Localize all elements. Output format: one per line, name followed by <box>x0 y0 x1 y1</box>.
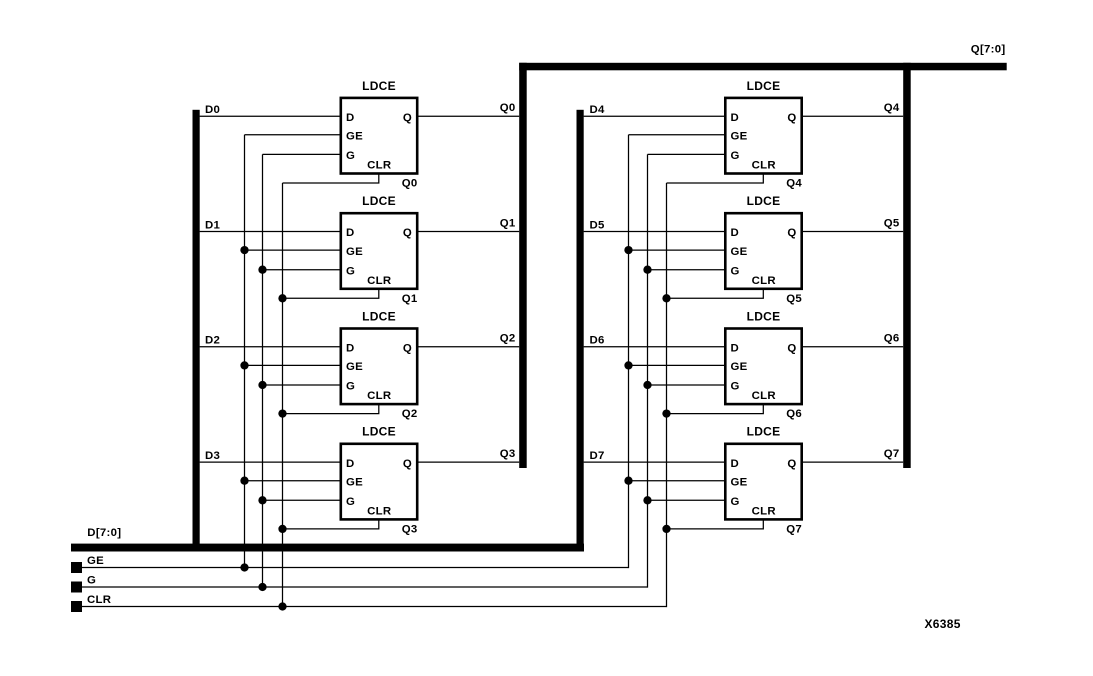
wire GE stub latch 2 <box>245 364 341 366</box>
svg-text:Q1: Q1 <box>402 293 418 305</box>
wire Q6 from pin Q to Q bus <box>802 346 903 348</box>
wire GE stub latch 3 <box>245 480 341 482</box>
svg-text:Q: Q <box>403 458 412 470</box>
wire D7 from D bus to pin D <box>584 461 725 463</box>
wire Q4 from pin Q to Q bus <box>802 115 903 117</box>
wire G horizontal net <box>82 586 648 588</box>
wire G vertical right group <box>647 154 649 587</box>
wire GE stub latch 7 <box>629 480 726 482</box>
svg-text:D7: D7 <box>590 450 605 462</box>
wire GE vertical right group <box>628 135 630 568</box>
junction GE tap latch 1 <box>240 246 248 254</box>
svg-text:G: G <box>346 265 355 277</box>
wire D0 from D bus to pin D <box>200 115 341 117</box>
junction GE-net left tap <box>240 563 248 571</box>
wire G vertical left group <box>262 154 264 587</box>
svg-text:Q: Q <box>403 227 412 239</box>
svg-text:G: G <box>346 381 355 393</box>
wire GE stub latch 0 <box>245 134 341 136</box>
junction CLR-net left tap <box>278 602 286 610</box>
svg-text:D4: D4 <box>590 104 606 116</box>
svg-text:Q3: Q3 <box>500 448 516 460</box>
bus Q[7:0] top horizontal <box>519 63 1007 71</box>
wire CLR stub latch 0 <box>283 174 379 183</box>
svg-text:G: G <box>346 496 355 508</box>
junction GE tap latch 5 <box>624 246 632 254</box>
wire GE horizontal net <box>82 567 629 569</box>
wire Q1 from pin Q to Q bus <box>418 231 520 233</box>
wire D2 from D bus to pin D <box>200 346 341 348</box>
svg-text:G: G <box>731 150 740 162</box>
bus D right vertical branch <box>577 110 584 551</box>
svg-text:LDCE: LDCE <box>362 194 396 208</box>
svg-text:LDCE: LDCE <box>747 425 781 439</box>
svg-text:G: G <box>731 265 740 277</box>
bus D[7:0] bottom horizontal <box>71 544 584 552</box>
svg-text:CLR: CLR <box>87 594 111 606</box>
terminal CLR input square <box>71 601 82 612</box>
svg-text:Q5: Q5 <box>786 293 802 305</box>
wire CLR stub latch 6 <box>667 404 764 413</box>
svg-text:D6: D6 <box>590 335 605 347</box>
svg-text:D: D <box>731 227 740 239</box>
junction GE tap latch 2 <box>240 361 248 369</box>
wire G stub latch 2 <box>263 384 341 386</box>
junction GE tap latch 3 <box>240 477 248 485</box>
svg-text:LDCE: LDCE <box>747 194 781 208</box>
svg-text:CLR: CLR <box>752 390 776 402</box>
svg-text:Q7: Q7 <box>786 523 802 535</box>
svg-text:X6385: X6385 <box>925 617 961 631</box>
svg-text:Q[7:0]: Q[7:0] <box>971 43 1006 55</box>
svg-text:Q: Q <box>787 458 796 470</box>
svg-text:GE: GE <box>731 476 748 488</box>
wire GE vertical left group <box>244 135 246 568</box>
junction G tap latch 5 <box>643 266 651 274</box>
latch 0 body (LDCE) instance Q0 <box>341 98 417 174</box>
svg-text:Q: Q <box>787 112 796 124</box>
wire GE stub latch 4 <box>629 134 726 136</box>
latch 6 body (LDCE) instance Q6 <box>725 329 801 405</box>
wire G stub latch 6 <box>648 384 726 386</box>
svg-text:G: G <box>731 496 740 508</box>
wire D5 from D bus to pin D <box>584 231 725 233</box>
svg-text:Q5: Q5 <box>884 217 900 229</box>
svg-text:Q6: Q6 <box>884 333 900 345</box>
svg-text:CLR: CLR <box>752 275 776 287</box>
svg-text:D0: D0 <box>205 104 220 116</box>
svg-text:GE: GE <box>346 361 363 373</box>
svg-text:LDCE: LDCE <box>747 309 781 323</box>
junction CLR tap latch 6 <box>662 409 670 417</box>
junction G tap latch 2 <box>258 381 266 389</box>
wire CLR stub latch 1 <box>283 289 379 298</box>
svg-text:D: D <box>346 227 355 239</box>
svg-text:GE: GE <box>731 131 748 143</box>
wire GE stub latch 5 <box>629 249 726 251</box>
svg-text:Q: Q <box>787 343 796 355</box>
svg-text:G: G <box>87 575 96 587</box>
junction G-net left tap <box>258 583 266 591</box>
wire Q0 from pin Q to Q bus <box>418 115 520 117</box>
svg-text:CLR: CLR <box>752 506 776 518</box>
svg-text:CLR: CLR <box>752 160 776 172</box>
latch 3 body (LDCE) instance Q3 <box>341 444 417 520</box>
bus Q right vertical branch <box>903 63 911 468</box>
wire CLR stub latch 7 <box>667 520 764 529</box>
junction G tap latch 7 <box>643 496 651 504</box>
junction CLR tap latch 7 <box>662 525 670 533</box>
svg-text:Q2: Q2 <box>402 408 418 420</box>
junction GE tap latch 6 <box>624 361 632 369</box>
wire CLR stub latch 4 <box>667 174 764 183</box>
svg-text:LDCE: LDCE <box>362 425 396 439</box>
svg-text:D: D <box>731 458 740 470</box>
svg-text:LDCE: LDCE <box>747 79 781 93</box>
svg-text:Q0: Q0 <box>500 102 516 114</box>
svg-text:D2: D2 <box>205 335 220 347</box>
latch 7 body (LDCE) instance Q7 <box>725 444 801 520</box>
svg-text:GE: GE <box>346 476 363 488</box>
svg-text:Q: Q <box>403 112 412 124</box>
junction G tap latch 6 <box>643 381 651 389</box>
bus D left vertical branch <box>193 110 200 551</box>
svg-text:LDCE: LDCE <box>362 309 396 323</box>
svg-text:GE: GE <box>731 361 748 373</box>
wire CLR vertical left group <box>282 183 284 607</box>
svg-text:Q7: Q7 <box>884 448 900 460</box>
svg-text:D1: D1 <box>205 219 221 231</box>
junction CLR tap latch 1 <box>278 294 286 302</box>
wire CLR vertical right group <box>666 183 668 607</box>
wire G stub latch 1 <box>263 269 341 271</box>
latch 2 body (LDCE) instance Q2 <box>341 329 417 405</box>
junction CLR tap latch 3 <box>278 525 286 533</box>
wire CLR stub latch 5 <box>667 289 764 298</box>
junction G tap latch 3 <box>258 496 266 504</box>
terminal G input square <box>71 582 82 593</box>
svg-text:D: D <box>731 343 740 355</box>
svg-text:G: G <box>731 381 740 393</box>
wire Q3 from pin Q to Q bus <box>418 461 520 463</box>
svg-text:Q3: Q3 <box>402 523 418 535</box>
junction CLR tap latch 2 <box>278 409 286 417</box>
svg-text:Q4: Q4 <box>786 178 802 190</box>
svg-text:D5: D5 <box>590 219 606 231</box>
wire D4 from D bus to pin D <box>584 115 725 117</box>
bus Q left vertical branch <box>519 63 527 468</box>
wire Q2 from pin Q to Q bus <box>418 346 520 348</box>
svg-text:D3: D3 <box>205 450 220 462</box>
wire D3 from D bus to pin D <box>200 461 341 463</box>
terminal GE input square <box>71 562 82 573</box>
svg-text:GE: GE <box>346 246 363 258</box>
wire CLR horizontal net <box>82 606 667 608</box>
svg-text:D: D <box>346 112 355 124</box>
wire G stub latch 3 <box>263 499 341 501</box>
svg-text:D[7:0]: D[7:0] <box>87 527 121 539</box>
junction G tap latch 1 <box>258 266 266 274</box>
wire G stub latch 7 <box>648 499 726 501</box>
latch 5 body (LDCE) instance Q5 <box>725 213 801 289</box>
junction GE tap latch 7 <box>624 477 632 485</box>
wire D6 from D bus to pin D <box>584 346 725 348</box>
svg-text:GE: GE <box>87 555 104 567</box>
svg-text:Q2: Q2 <box>500 333 516 345</box>
svg-text:Q: Q <box>403 343 412 355</box>
wire Q7 from pin Q to Q bus <box>802 461 903 463</box>
svg-text:CLR: CLR <box>367 390 391 402</box>
wire Q5 from pin Q to Q bus <box>802 231 903 233</box>
latch 4 body (LDCE) instance Q4 <box>725 98 801 174</box>
svg-text:Q: Q <box>787 227 796 239</box>
wire G stub latch 0 <box>263 153 341 155</box>
svg-text:GE: GE <box>346 131 363 143</box>
svg-text:Q6: Q6 <box>786 408 802 420</box>
wire GE stub latch 1 <box>245 249 341 251</box>
svg-text:D: D <box>346 458 355 470</box>
svg-text:GE: GE <box>731 246 748 258</box>
latch 1 body (LDCE) instance Q1 <box>341 213 417 289</box>
wire GE stub latch 6 <box>629 364 726 366</box>
svg-text:G: G <box>346 150 355 162</box>
wire CLR stub latch 2 <box>283 404 379 413</box>
svg-text:CLR: CLR <box>367 160 391 172</box>
svg-text:CLR: CLR <box>367 275 391 287</box>
wire G stub latch 4 <box>648 153 726 155</box>
wire D1 from D bus to pin D <box>200 231 341 233</box>
svg-text:Q0: Q0 <box>402 178 418 190</box>
svg-text:CLR: CLR <box>367 506 391 518</box>
wire G stub latch 5 <box>648 269 726 271</box>
svg-text:LDCE: LDCE <box>362 79 396 93</box>
svg-text:D: D <box>346 343 355 355</box>
svg-text:Q1: Q1 <box>500 217 516 229</box>
junction CLR tap latch 5 <box>662 294 670 302</box>
wire CLR stub latch 3 <box>283 520 379 529</box>
svg-text:Q4: Q4 <box>884 102 900 114</box>
svg-text:D: D <box>731 112 740 124</box>
